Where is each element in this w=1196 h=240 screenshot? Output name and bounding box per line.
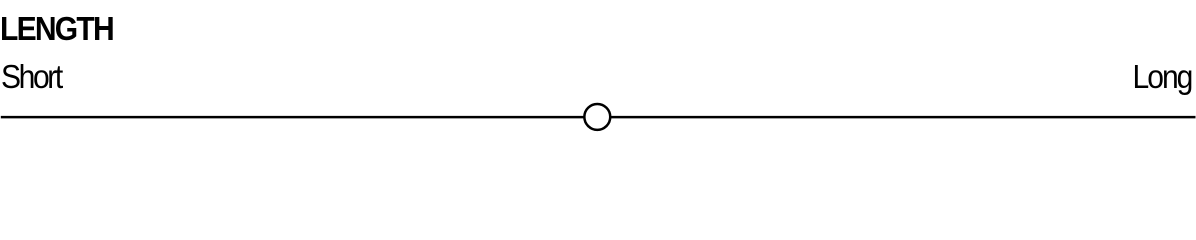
label LENGTH: [0, 13, 113, 46]
slider track: [1, 116, 1196, 119]
slider handle: [584, 104, 610, 130]
label Short: [1, 61, 61, 94]
label Long: [1132, 61, 1191, 94]
